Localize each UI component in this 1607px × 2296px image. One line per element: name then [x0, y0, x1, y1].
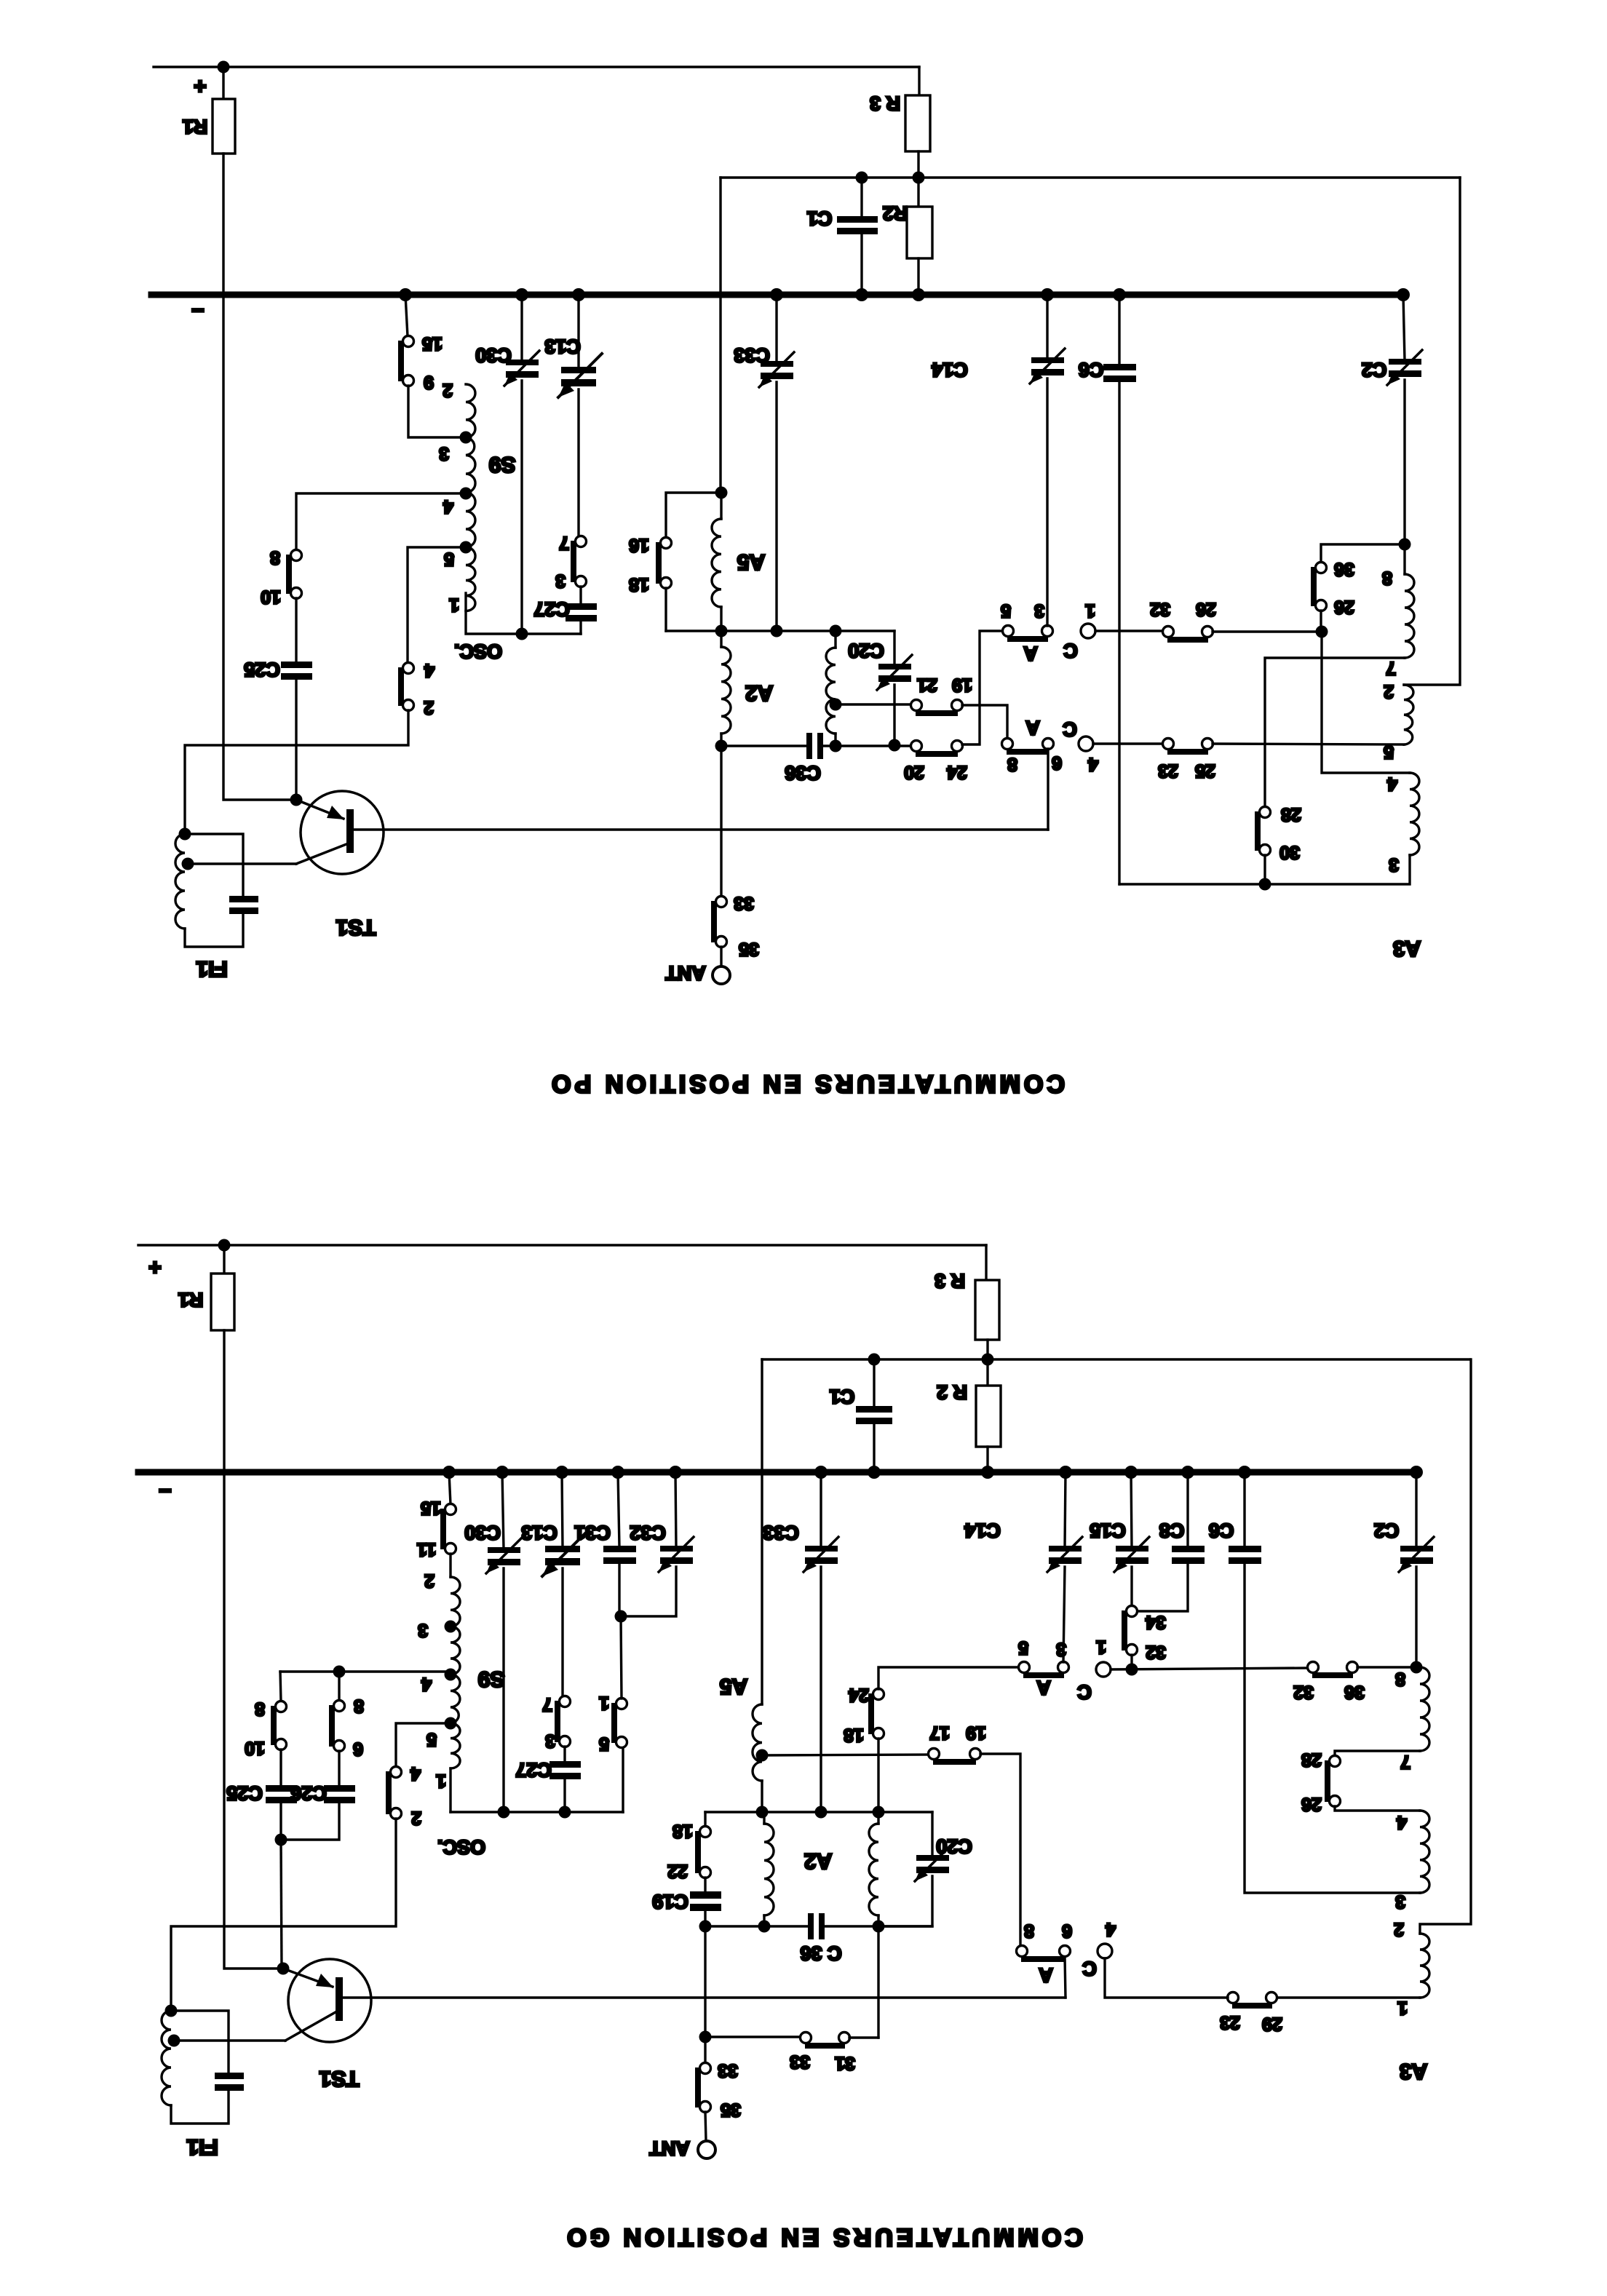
node R3/R2	[913, 172, 925, 184]
resistor R2	[986, 1359, 988, 1386]
wire collector to FI1 tap	[188, 862, 296, 865]
wire ant feed	[720, 746, 722, 897]
switch 7-3	[576, 536, 587, 547]
svg-text:C13: C13	[544, 335, 581, 357]
wire contact1 to sw32	[1095, 629, 1163, 632]
wire tap5 to sw4	[408, 547, 466, 663]
node A5 top	[715, 487, 728, 499]
switch 1-5	[616, 1699, 627, 1709]
svg-text:2: 2	[411, 1808, 421, 1828]
svg-text:OSC.: OSC.	[454, 640, 502, 662]
capacitor C6	[1243, 1472, 1245, 1547]
svg-text:18: 18	[629, 574, 649, 595]
resistor R1	[223, 1245, 225, 1274]
wire osc line	[451, 1811, 623, 1813]
wire to sw8b	[338, 1672, 340, 1701]
node rail dots	[443, 1466, 1423, 1479]
wire sw19 to swA8	[980, 1754, 1020, 1946]
switch 15-11	[449, 1472, 451, 1504]
capacitor C33 (variable)	[775, 295, 777, 362]
terminal contact C-1	[1096, 1662, 1111, 1677]
svg-text:COMMUTATEURS EN POSITION GO: COMMUTATEURS EN POSITION GO	[563, 2223, 1083, 2251]
switch 17-19	[929, 1749, 940, 1760]
svg-text:C2: C2	[1374, 1520, 1400, 1541]
wire coil2 top to right riser	[1420, 1359, 1471, 1934]
wire A2 bottom line	[721, 744, 806, 747]
svg-text:A2: A2	[745, 681, 773, 705]
capacitor C27	[563, 1747, 566, 1763]
wire sw18 down to A5 line	[877, 1739, 879, 1812]
svg-text:A5: A5	[737, 550, 765, 574]
wire +rail corner to R3	[918, 67, 920, 95]
svg-text:C26: C26	[290, 1782, 327, 1804]
svg-text:3: 3	[1034, 600, 1044, 621]
svg-text:1: 1	[599, 1693, 609, 1713]
svg-text:8: 8	[255, 1699, 265, 1719]
svg-text:C: C	[1063, 718, 1077, 740]
svg-text:ANT: ANT	[665, 962, 706, 984]
capacitor C15 (variable)	[1131, 1472, 1132, 1547]
svg-text:32: 32	[1146, 1642, 1166, 1662]
node +rail/R1	[218, 1239, 231, 1252]
svg-text:26: 26	[1196, 599, 1216, 619]
svg-text:6: 6	[353, 1739, 363, 1759]
terminal ANT	[720, 947, 722, 966]
switch 32-36	[1308, 1662, 1319, 1673]
svg-text:2: 2	[443, 380, 453, 400]
wire collector to FI1 tap	[174, 2039, 285, 2041]
wire coil1 bottom line	[1277, 1996, 1420, 1998]
svg-text:R2: R2	[883, 202, 908, 224]
svg-text:C14: C14	[932, 359, 968, 381]
capacitor C36	[808, 1913, 814, 1939]
switch 33-35	[700, 2063, 711, 2074]
switch 34-32	[1127, 1606, 1138, 1617]
node FI1 top	[165, 2005, 178, 2017]
svg-text:C8: C8	[1159, 1520, 1185, 1541]
svg-text:1: 1	[1397, 1998, 1408, 2018]
switch 18-22	[700, 1827, 711, 1838]
svg-text:21: 21	[917, 675, 937, 695]
svg-text:33: 33	[790, 2051, 810, 2072]
wire A2 bottom line y2647	[705, 1925, 808, 1927]
svg-text:5: 5	[444, 549, 454, 569]
switch 8-6	[334, 1701, 345, 1712]
wire sw6 to base line	[1047, 749, 1049, 830]
wire -rail thick	[151, 292, 1403, 298]
svg-text:C6: C6	[1079, 359, 1104, 381]
wire base line	[343, 1996, 1066, 1998]
svg-text:8: 8	[270, 547, 280, 568]
svg-text:20: 20	[904, 762, 924, 782]
svg-text:C20: C20	[936, 1835, 972, 1857]
svg-text:15: 15	[422, 333, 443, 354]
capacitor C32 (variable)	[675, 1472, 676, 1547]
svg-text:C33: C33	[734, 344, 770, 366]
switch 33-31	[801, 2033, 812, 2043]
svg-text:36: 36	[1344, 1682, 1365, 1702]
svg-text:C: C	[1063, 640, 1078, 662]
transistor TS1	[288, 1959, 371, 2042]
svg-text:28: 28	[1281, 804, 1301, 825]
svg-text:3: 3	[1389, 854, 1399, 875]
svg-text:26: 26	[1334, 597, 1354, 617]
capacitor C30 (variable)	[502, 1472, 504, 1549]
wire contact to sw36b	[1111, 1668, 1308, 1669]
wire A5 feed vertical	[719, 178, 721, 493]
svg-text:8: 8	[1395, 1669, 1405, 1689]
capacitor C1	[860, 178, 862, 218]
svg-text:4: 4	[410, 1763, 421, 1784]
svg-text:19: 19	[966, 1723, 986, 1743]
svg-text:4: 4	[1088, 754, 1098, 774]
svg-text:5: 5	[426, 1729, 437, 1749]
svg-text:8: 8	[1024, 1920, 1034, 1941]
svg-text:4: 4	[443, 496, 453, 517]
wire sw9 to tap3	[408, 386, 460, 437]
wire ant node to sw33b	[705, 2035, 801, 2038]
svg-text:C13: C13	[521, 1522, 558, 1544]
inductor A2 coupling winding	[834, 631, 836, 648]
switch 8-10	[291, 550, 302, 561]
resistor R3	[905, 95, 930, 151]
svg-text:6: 6	[1052, 752, 1062, 773]
svg-text:11: 11	[417, 1539, 437, 1560]
wire osc line to sw5	[622, 1747, 624, 1812]
svg-text:TS1: TS1	[319, 2067, 359, 2091]
capacitor C19	[704, 1878, 706, 1893]
svg-text:31: 31	[835, 2053, 855, 2073]
svg-text:1: 1	[449, 595, 459, 615]
capacitor C33 (variable)	[820, 1472, 822, 1547]
wire base corner up to swA6	[1065, 1956, 1066, 1998]
transistor TS1	[301, 791, 384, 874]
wire A5 feed vertical	[761, 1359, 763, 1704]
svg-text:24: 24	[947, 762, 967, 782]
wire R3 to node	[917, 151, 919, 178]
node A2 tap	[830, 699, 842, 711]
wire tap5 to sw4	[396, 1723, 451, 1767]
wire sw24 to sw5	[962, 631, 1003, 744]
svg-text:4: 4	[1106, 1919, 1116, 1939]
svg-text:C6: C6	[1209, 1520, 1234, 1541]
wire FI1 loop	[185, 914, 243, 947]
svg-text:3: 3	[1395, 1891, 1405, 1912]
switch 25-23	[1163, 739, 1174, 750]
svg-text:33: 33	[734, 893, 754, 913]
svg-text:C32: C32	[630, 1522, 666, 1544]
wire coil7 to sw28b	[1335, 1751, 1420, 1756]
svg-text:−: −	[159, 1479, 172, 1503]
wire sw2 to FI1	[185, 710, 408, 834]
wire join to emitter node	[281, 1840, 282, 1969]
capacitor C13 (variable)	[562, 1472, 563, 1547]
terminal contact C-4	[1098, 1944, 1112, 1958]
inductor FI1	[175, 834, 185, 929]
svg-text:FI1: FI1	[196, 957, 227, 981]
svg-text:C31: C31	[574, 1522, 611, 1544]
wire sw26b to coil4	[1335, 1806, 1420, 1811]
node A3 pin8	[1399, 539, 1411, 551]
svg-text:33: 33	[718, 2060, 738, 2081]
switch 29-23	[1228, 1993, 1239, 2003]
wire node line y867	[666, 629, 894, 632]
switch A lower 8-6	[1017, 1946, 1028, 1957]
svg-text:18: 18	[844, 1725, 864, 1745]
svg-text:7: 7	[542, 1694, 552, 1715]
wire sw36b to A3 node	[1357, 1666, 1416, 1668]
capacitor C2 (variable)	[1403, 295, 1405, 360]
inductor A5	[720, 493, 722, 519]
wire bias line y244	[721, 176, 1460, 178]
capacitor C36	[806, 733, 812, 759]
switch 4-2	[391, 1767, 402, 1778]
wire tap4 to sw8	[296, 493, 466, 550]
inductor A3 winding 8-7	[1403, 544, 1405, 574]
capacitor C26	[338, 1751, 340, 1787]
svg-text:23: 23	[1220, 2012, 1240, 2033]
node rail dots	[399, 288, 1410, 301]
svg-text:28: 28	[1301, 1749, 1322, 1770]
wire S9 bottom to osc line	[449, 1768, 451, 1812]
wire osc node line	[522, 632, 581, 635]
svg-text:3: 3	[439, 443, 449, 464]
inductor A3 winding 4-3	[1410, 773, 1419, 855]
switch 20-24	[911, 741, 922, 752]
svg-text:A3: A3	[1393, 937, 1421, 961]
svg-text:A3: A3	[1400, 2059, 1427, 2084]
wire sw30 to bottom node	[1263, 855, 1266, 884]
wire base line	[354, 828, 1048, 830]
svg-text:2: 2	[1394, 1919, 1404, 1939]
svg-text:S9: S9	[478, 1667, 505, 1691]
wire sw26 to A3 node	[1213, 630, 1322, 632]
svg-text:3: 3	[555, 571, 566, 591]
svg-text:8: 8	[1007, 754, 1017, 774]
svg-text:24: 24	[849, 1685, 869, 1705]
svg-text:C2: C2	[1362, 359, 1387, 381]
wire -rail thick	[138, 1469, 1416, 1476]
svg-text:10: 10	[245, 1738, 265, 1758]
resistor R2	[917, 178, 919, 207]
svg-text:C27: C27	[533, 598, 570, 620]
svg-text:36: 36	[1334, 559, 1354, 579]
svg-text:15: 15	[421, 1498, 441, 1518]
capacitor FI1 cap	[229, 896, 258, 902]
capacitor C25	[279, 1749, 282, 1787]
wire S9 bottom to osc node	[466, 593, 522, 634]
switch 16-18	[661, 538, 672, 549]
wire sw2 to FI1	[171, 1819, 396, 2011]
wire R1 to emitter node	[223, 154, 290, 800]
svg-text:C 36: C 36	[800, 1942, 841, 1964]
wire sw18 to line	[664, 588, 667, 631]
svg-text:8: 8	[354, 1696, 364, 1716]
wire ant node vertical	[704, 1926, 706, 2063]
svg-text:35: 35	[739, 939, 759, 959]
svg-text:26: 26	[1301, 1794, 1322, 1814]
svg-text:6: 6	[1062, 1920, 1072, 1941]
wire corner to sw18b	[704, 1812, 706, 1827]
terminal contact 1	[1081, 624, 1095, 638]
svg-text:32: 32	[1293, 1682, 1314, 1702]
svg-text:C: C	[1077, 1681, 1092, 1703]
wire R1 to emitter node	[224, 1330, 277, 1969]
svg-text:C30: C30	[464, 1522, 501, 1544]
capacitor C31	[618, 1472, 619, 1547]
node R3/R2	[982, 1354, 994, 1366]
svg-text:10: 10	[261, 587, 281, 607]
svg-text:30: 30	[1279, 842, 1300, 862]
svg-text:R1: R1	[183, 116, 208, 138]
wire R3 to node	[986, 1340, 988, 1359]
svg-text:25: 25	[1195, 760, 1215, 781]
svg-text:C: C	[1082, 1958, 1097, 1979]
svg-text:2: 2	[1384, 681, 1394, 702]
svg-text:35: 35	[721, 2100, 741, 2120]
capacitor C14 (variable)	[1046, 295, 1048, 359]
terminal contact 4	[1079, 736, 1093, 751]
svg-text:R1: R1	[178, 1289, 204, 1311]
wire sw32b to contact line	[1130, 1655, 1132, 1669]
inductor A3 winding 4-3	[1420, 1811, 1429, 1893]
capacitor C20 (variable)	[893, 631, 895, 665]
switch 28-26	[1330, 1756, 1341, 1767]
wire tap to sw21	[836, 703, 911, 705]
switch 36-26	[1316, 563, 1327, 573]
wire +rail corner to R3	[985, 1245, 987, 1280]
svg-text:C20: C20	[848, 640, 884, 662]
capacitor FI1 cap	[215, 2073, 244, 2079]
svg-text:9: 9	[424, 372, 434, 392]
wire coil2 top to right riser	[1404, 178, 1460, 685]
svg-text:1: 1	[1096, 1637, 1106, 1657]
wire coil3 bottom line	[1119, 855, 1410, 884]
inductor A2 primary	[763, 1812, 765, 1824]
wire tap to sw17	[762, 1755, 929, 1755]
svg-text:C25: C25	[244, 659, 280, 680]
switch A upper 5-3	[1019, 1662, 1030, 1673]
svg-text:5: 5	[1384, 742, 1394, 762]
node FI1 top	[179, 828, 191, 841]
switch 32-26	[1163, 627, 1174, 637]
terminal ANT	[705, 2112, 706, 2140]
svg-text:S9: S9	[489, 453, 516, 477]
inductor A3 winding 2-1	[1420, 1934, 1429, 1998]
svg-text:R 3: R 3	[935, 1270, 965, 1292]
svg-text:+: +	[148, 1255, 162, 1279]
svg-text:C25: C25	[226, 1782, 263, 1804]
svg-text:17: 17	[929, 1723, 950, 1743]
resistor R3	[975, 1280, 999, 1340]
svg-text:C14: C14	[964, 1520, 1001, 1541]
wire sw31 to coupling winding	[849, 2036, 878, 2038]
inductor A2 coupling winding	[877, 1812, 879, 1824]
switch 28-30	[1260, 807, 1271, 818]
wire pin8 node to sw36	[1321, 544, 1405, 563]
svg-text:4: 4	[1387, 774, 1397, 794]
switch 21-19	[911, 700, 922, 711]
wire A5top to sw16	[666, 493, 721, 538]
svg-text:16: 16	[629, 535, 649, 555]
svg-text:22: 22	[667, 1861, 688, 1881]
svg-text:FI1: FI1	[186, 2135, 218, 2159]
svg-text:C19: C19	[652, 1891, 689, 1912]
switch 8-10	[276, 1701, 287, 1712]
svg-text:4: 4	[421, 1674, 432, 1694]
svg-text:3: 3	[418, 1620, 428, 1640]
switch A upper 5-3	[1003, 626, 1014, 637]
inductor A5	[753, 1704, 762, 1781]
node C25/C26 join	[275, 1834, 287, 1846]
svg-text:COMMUTATEURS EN POSITION PO: COMMUTATEURS EN POSITION PO	[548, 1070, 1065, 1097]
svg-text:1: 1	[436, 1771, 446, 1791]
capacitor C25	[295, 598, 297, 663]
svg-text:C1: C1	[830, 1386, 855, 1407]
wire sw23 to A3 coil2 bottom	[1213, 744, 1404, 744]
wire +rail top	[154, 65, 919, 68]
svg-text:23: 23	[1158, 760, 1178, 781]
switch A lower 8-6	[1002, 739, 1013, 750]
node C1 top	[868, 1354, 881, 1366]
svg-text:C36: C36	[785, 762, 821, 784]
svg-text:A2: A2	[804, 1849, 832, 1873]
inductor A3 winding 2-5	[1404, 685, 1413, 744]
capacitor C1	[873, 1359, 875, 1407]
inductor A3 winding 8-7	[1420, 1667, 1429, 1751]
wire sw19 to sw8	[962, 705, 1007, 739]
svg-text:A: A	[1025, 717, 1040, 739]
capacitor C27	[579, 587, 582, 605]
wire sw1 to C31/C32 node	[621, 1616, 622, 1699]
switch 4-2	[403, 663, 414, 674]
wire A5 bottom line y2490	[705, 1811, 932, 1813]
wire coil7 to sw28	[1265, 658, 1405, 807]
svg-text:OSC.: OSC.	[437, 1836, 485, 1858]
switch 33-35	[716, 897, 727, 907]
wire to sw8a	[280, 1672, 281, 1701]
wire sw26b to node	[1320, 611, 1322, 632]
wire node down to coil4 top	[1322, 632, 1410, 773]
svg-text:A5: A5	[720, 1675, 747, 1699]
svg-text:C1: C1	[807, 207, 833, 229]
svg-text:5: 5	[1001, 600, 1011, 621]
switch 24-18	[873, 1689, 884, 1700]
svg-text:TS1: TS1	[336, 915, 376, 940]
svg-text:5: 5	[599, 1733, 609, 1754]
capacitor C14 (variable)	[1065, 1472, 1066, 1547]
svg-text:+: +	[194, 74, 207, 98]
node A5 tap	[756, 1749, 769, 1762]
svg-text:29: 29	[1262, 2014, 1282, 2034]
switch 7-3	[560, 1696, 571, 1707]
svg-text:5: 5	[1018, 1637, 1028, 1658]
svg-text:8: 8	[1382, 568, 1392, 588]
node C1 top	[856, 172, 868, 184]
svg-text:18: 18	[672, 1821, 693, 1841]
wire bias line y1868	[762, 1358, 1469, 1360]
node emitter junction	[277, 1963, 290, 1975]
svg-text:3: 3	[545, 1731, 555, 1751]
svg-text:C27: C27	[515, 1759, 552, 1781]
wire tap4 line	[280, 1672, 451, 1675]
svg-text:2: 2	[424, 697, 434, 718]
node emitter junction	[290, 794, 303, 806]
capacitor C2 (variable)	[1415, 1472, 1417, 1547]
capacitor C8	[1186, 1472, 1189, 1547]
svg-text:A: A	[1023, 643, 1038, 664]
inductor S9	[451, 1577, 460, 1768]
